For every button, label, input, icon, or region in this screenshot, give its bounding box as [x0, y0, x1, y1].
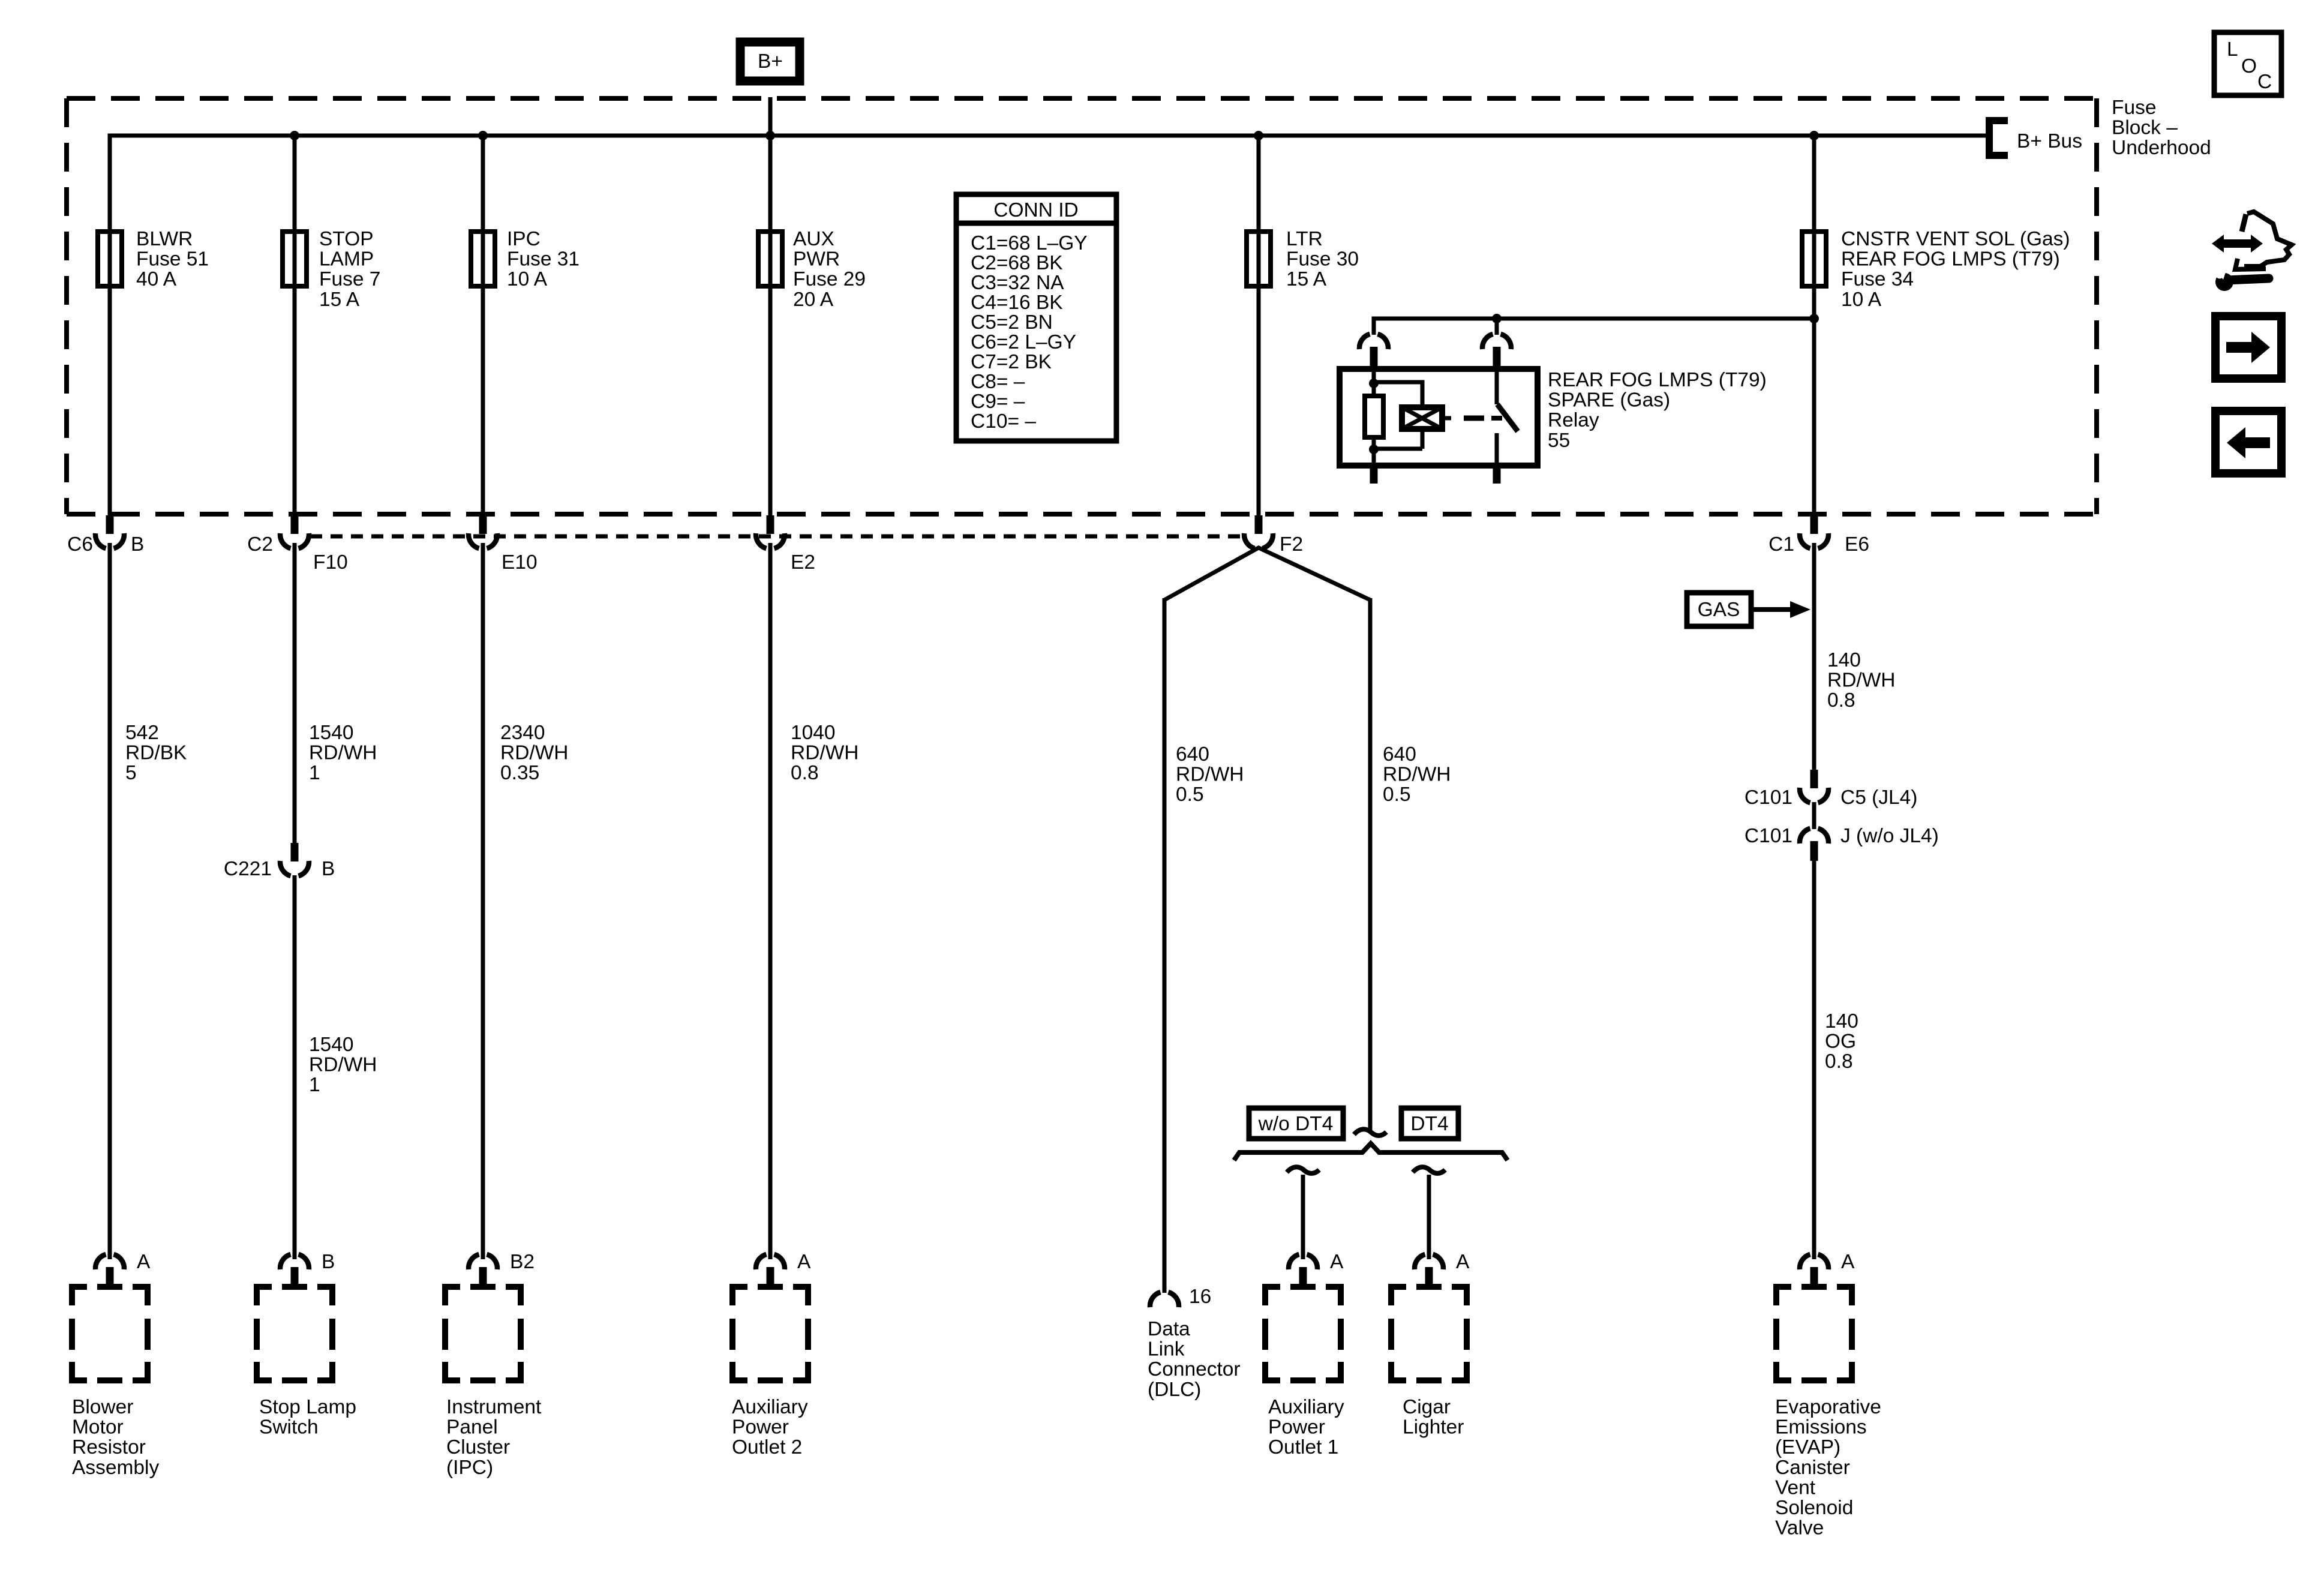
svg-text:C2=68 BK: C2=68 BK: [971, 252, 1063, 274]
svg-text:RD/WH: RD/WH: [309, 1054, 377, 1076]
svg-text:Fuse 29: Fuse 29: [793, 268, 866, 290]
fuse block dashed border: [67, 96, 2097, 101]
relay lower terminal stub (coil): [1370, 466, 1378, 484]
svg-text:BLWR: BLWR: [136, 228, 193, 250]
B+ feed box: [740, 42, 800, 81]
svg-text:C6: C6: [67, 533, 93, 556]
wire bus to F2 via LTR fuse: [1257, 136, 1261, 515]
svg-text:140: 140: [1825, 1010, 1858, 1032]
junction dot bus/B+ feed: [765, 131, 775, 140]
svg-text:STOP: STOP: [319, 228, 374, 250]
component box EVAP Canister Vent Solenoid Valve: [1776, 1287, 1852, 1380]
wire bus to E2 via AUX fuse: [768, 136, 773, 515]
svg-text:Cigar: Cigar: [1403, 1396, 1451, 1418]
svg-text:10 A: 10 A: [1841, 289, 1882, 311]
svg-text:Fuse 30: Fuse 30: [1286, 248, 1359, 271]
svg-text:0.8: 0.8: [791, 762, 819, 784]
svg-text:Outlet 2: Outlet 2: [732, 1436, 802, 1458]
relay lower terminal stub (switch): [1493, 466, 1501, 484]
svg-text:SPARE (Gas): SPARE (Gas): [1548, 389, 1670, 412]
svg-text:Resistor: Resistor: [72, 1436, 146, 1458]
junction dot bus/CNSTR: [1809, 131, 1819, 140]
svg-text:0.8: 0.8: [1827, 689, 1855, 712]
junction dot bus/IPC: [478, 131, 488, 140]
service wrench icon: [2212, 235, 2263, 253]
svg-text:C6=2 L–GY: C6=2 L–GY: [971, 331, 1076, 353]
component box Auxiliary Power Outlet 2: [732, 1287, 808, 1380]
svg-text:Power: Power: [732, 1416, 789, 1439]
svg-text:C101: C101: [1744, 786, 1792, 809]
svg-text:Fuse 34: Fuse 34: [1841, 268, 1914, 290]
svg-text:CONN ID: CONN ID: [993, 199, 1078, 221]
svg-text:B2: B2: [510, 1251, 535, 1273]
svg-text:10 A: 10 A: [507, 268, 548, 290]
svg-text:RD/BK: RD/BK: [125, 742, 187, 764]
connector E2: [767, 515, 774, 534]
wire 1540 RD/WH lower: [293, 875, 297, 1259]
svg-text:OG: OG: [1825, 1031, 1856, 1053]
svg-text:A: A: [1456, 1251, 1470, 1273]
wire relay coil loop: [1374, 380, 1422, 385]
svg-text:Valve: Valve: [1775, 1517, 1824, 1539]
svg-text:Canister: Canister: [1775, 1457, 1850, 1479]
wire bus to C1 via CNSTR fuse: [1812, 136, 1816, 515]
connector F2: [1255, 515, 1263, 534]
relay switch fixed contact: [1491, 416, 1502, 421]
relay switch upper contact: [1495, 369, 1499, 404]
junction dot relay node top: [1369, 379, 1379, 388]
svg-text:w/o DT4: w/o DT4: [1258, 1113, 1334, 1135]
DLC connector pin 16: [1150, 1292, 1179, 1307]
svg-text:B+ Bus: B+ Bus: [2017, 130, 2082, 152]
svg-text:Motor: Motor: [72, 1416, 124, 1439]
svg-text:RD/WH: RD/WH: [1827, 670, 1896, 692]
relay coil (box with X): [1402, 407, 1442, 429]
branch squiggle left: [1287, 1167, 1319, 1173]
junction dot bus/STOP: [290, 131, 299, 140]
relay linkage dash: [1464, 416, 1484, 421]
connector pin A (aux outlet 2): [756, 1254, 785, 1269]
svg-text:DT4: DT4: [1410, 1113, 1448, 1135]
svg-text:1: 1: [309, 1074, 320, 1096]
svg-text:Auxiliary: Auxiliary: [1268, 1396, 1344, 1418]
connector E10: [479, 515, 487, 534]
wire 542 RD/BK: [108, 543, 112, 1259]
relay switch lower contact: [1495, 433, 1499, 466]
wire relay switch drop: [1495, 317, 1499, 335]
svg-text:C10= –: C10= –: [971, 410, 1036, 433]
branch wire to Cigar Lighter: [1427, 1175, 1431, 1259]
B+ Bus bracket: [1989, 121, 2008, 155]
svg-text:Connector: Connector: [1148, 1358, 1241, 1380]
fuse CNSTR VENT SOL Fuse 34 10A: [1802, 232, 1826, 286]
svg-text:55: 55: [1548, 430, 1570, 452]
svg-text:C5=2 BN: C5=2 BN: [971, 311, 1053, 334]
break symbol on 640 wire: [1354, 1129, 1386, 1136]
svg-text:1: 1: [309, 762, 320, 784]
svg-text:Power: Power: [1268, 1416, 1325, 1439]
svg-text:20 A: 20 A: [793, 289, 834, 311]
F2 split diagonals: [1164, 548, 1370, 600]
component box Cigar Lighter: [1391, 1287, 1467, 1380]
svg-text:140: 140: [1827, 649, 1861, 671]
option brace: [1234, 1143, 1508, 1160]
svg-text:1540: 1540: [309, 722, 354, 744]
svg-text:(DLC): (DLC): [1148, 1379, 1201, 1401]
svg-text:REAR FOG LMPS (T79): REAR FOG LMPS (T79): [1548, 369, 1767, 391]
svg-text:IPC: IPC: [507, 228, 541, 250]
component box Auxiliary Power Outlet 1: [1265, 1287, 1341, 1380]
fuse LTR Fuse 30 15A: [1247, 232, 1271, 286]
wire 1040 RD/WH: [768, 543, 773, 1259]
svg-text:PWR: PWR: [793, 248, 840, 271]
svg-text:Relay: Relay: [1548, 409, 1599, 431]
branch squiggle right: [1413, 1167, 1445, 1173]
svg-text:2340: 2340: [500, 722, 545, 744]
svg-text:Auxiliary: Auxiliary: [732, 1396, 808, 1418]
svg-text:AUX: AUX: [793, 228, 834, 250]
svg-text:640: 640: [1383, 743, 1416, 766]
wire 640 RD/WH right: [1368, 598, 1373, 1131]
svg-text:(IPC): (IPC): [446, 1457, 493, 1479]
svg-text:LAMP: LAMP: [319, 248, 374, 271]
wire 2340 RD/WH: [481, 543, 485, 1259]
svg-text:A: A: [1330, 1251, 1344, 1273]
svg-text:A: A: [1841, 1251, 1855, 1273]
option box w/o DT4: [1249, 1108, 1343, 1139]
svg-text:Switch: Switch: [259, 1416, 319, 1439]
relay 55 box: [1340, 369, 1538, 466]
LOC box: [2214, 32, 2281, 95]
branch wire to Aux Outlet 1: [1301, 1175, 1305, 1259]
svg-text:C101: C101: [1744, 825, 1792, 847]
wire bus to C2 via STOP fuse: [293, 136, 297, 515]
svg-text:C1: C1: [1768, 533, 1794, 556]
connector C101 J (w/o JL4): [1812, 802, 1816, 829]
GAS option box and arrow: [1687, 593, 1751, 626]
wire bus to E10 via IPC fuse: [481, 136, 485, 515]
svg-text:(EVAP): (EVAP): [1775, 1436, 1840, 1458]
svg-text:C221: C221: [224, 858, 272, 880]
connector pin A (blower): [95, 1254, 124, 1269]
svg-text:C1=68 L–GY: C1=68 L–GY: [971, 232, 1088, 254]
wire 140 RD/WH: [1812, 543, 1816, 771]
wire 1540 RD/WH upper: [293, 543, 297, 843]
svg-text:C5 (JL4): C5 (JL4): [1840, 786, 1917, 809]
svg-text:C3=32 NA: C3=32 NA: [971, 272, 1064, 294]
wire 640 RD/WH left (DLC): [1163, 598, 1167, 1293]
junction dot bus/LTR: [1254, 131, 1263, 140]
svg-text:B: B: [322, 1251, 335, 1273]
svg-text:Blower: Blower: [72, 1396, 133, 1418]
relay feed wire from fuse 34: [1374, 317, 1814, 321]
svg-text:A: A: [797, 1251, 811, 1273]
svg-text:40 A: 40 A: [136, 268, 177, 290]
svg-text:Fuse 7: Fuse 7: [319, 268, 380, 290]
svg-text:B: B: [322, 858, 335, 880]
wire relay coil tab: [1442, 416, 1451, 421]
svg-text:O: O: [2241, 55, 2257, 77]
wire relay resistor bottom: [1372, 437, 1376, 466]
forward arrow box: [2215, 316, 2281, 379]
relay coil-side connector: [1359, 334, 1388, 349]
svg-text:Evaporative: Evaporative: [1775, 1396, 1881, 1418]
junction dot relay switch feed: [1492, 314, 1502, 323]
svg-text:Stop Lamp: Stop Lamp: [259, 1396, 356, 1418]
svg-text:Fuse 51: Fuse 51: [136, 248, 209, 271]
connector C2 F10: [291, 515, 299, 534]
svg-text:E6: E6: [1845, 533, 1869, 556]
connector C101 C5 (JL4): [1810, 770, 1818, 788]
connector C221 B: [291, 843, 299, 861]
svg-text:RD/WH: RD/WH: [1383, 764, 1451, 786]
svg-text:B+: B+: [758, 50, 783, 73]
svg-text:F10: F10: [313, 551, 348, 574]
connector C6 B: [106, 515, 114, 534]
wire from B+ feed: [768, 97, 773, 136]
svg-text:LTR: LTR: [1286, 228, 1323, 250]
svg-text:Link: Link: [1148, 1338, 1185, 1361]
junction dot relay node bottom: [1369, 445, 1379, 454]
wire 140 OG: [1812, 861, 1816, 1259]
svg-text:REAR FOG LMPS (T79): REAR FOG LMPS (T79): [1841, 248, 2060, 271]
relay switch-side connector: [1482, 334, 1511, 349]
option box DT4: [1401, 1108, 1458, 1139]
svg-text:542: 542: [125, 722, 159, 744]
fuse STOP LAMP Fuse 7 15A: [283, 232, 307, 286]
svg-text:Vent: Vent: [1775, 1476, 1816, 1499]
svg-text:RD/WH: RD/WH: [309, 742, 377, 764]
wire relay resistor top: [1372, 369, 1376, 396]
fuse IPC Fuse 31 10A: [471, 232, 495, 286]
connector C1 E6: [1810, 515, 1818, 534]
fuse BLWR Fuse 51 40A: [98, 232, 122, 286]
svg-text:Lighter: Lighter: [1403, 1416, 1464, 1439]
svg-text:J (w/o JL4): J (w/o JL4): [1840, 825, 1939, 847]
connector row dotted link: [310, 535, 1245, 539]
component box Stop Lamp Switch: [257, 1287, 332, 1380]
CONN ID table: [956, 194, 1116, 441]
svg-text:Block –: Block –: [2112, 117, 2178, 139]
svg-text:5: 5: [125, 762, 137, 784]
svg-text:Instrument: Instrument: [446, 1396, 542, 1418]
svg-text:C2: C2: [247, 533, 273, 556]
svg-text:E2: E2: [791, 551, 815, 574]
svg-text:L: L: [2227, 38, 2238, 61]
svg-text:RD/WH: RD/WH: [791, 742, 859, 764]
connector pin A (cigar lighter): [1415, 1254, 1443, 1269]
svg-text:Panel: Panel: [446, 1416, 498, 1439]
connector pin A (aux outlet 1): [1289, 1254, 1317, 1269]
svg-text:15 A: 15 A: [1286, 268, 1327, 290]
svg-text:0.5: 0.5: [1383, 784, 1411, 806]
svg-text:15 A: 15 A: [319, 289, 360, 311]
wire relay coil drop: [1372, 317, 1376, 335]
svg-text:1540: 1540: [309, 1034, 354, 1056]
svg-text:16: 16: [1189, 1286, 1211, 1308]
svg-text:1040: 1040: [791, 722, 836, 744]
svg-text:Solenoid: Solenoid: [1775, 1497, 1853, 1519]
junction dot CNSTR/relay feed: [1809, 314, 1819, 323]
svg-text:0.8: 0.8: [1825, 1050, 1853, 1073]
svg-text:Data: Data: [1148, 1318, 1190, 1340]
svg-text:Assembly: Assembly: [72, 1457, 159, 1479]
B+ bus wire: [108, 134, 112, 516]
svg-text:CNSTR VENT SOL (Gas): CNSTR VENT SOL (Gas): [1841, 228, 2070, 250]
svg-text:Outlet 1: Outlet 1: [1268, 1436, 1338, 1458]
svg-text:Emissions: Emissions: [1775, 1416, 1867, 1439]
relay resistor: [1365, 396, 1383, 437]
fuse AUX PWR Fuse 29 20A: [758, 232, 782, 286]
svg-text:RD/WH: RD/WH: [1176, 764, 1244, 786]
component box Instrument Panel Cluster: [445, 1287, 521, 1380]
svg-text:RD/WH: RD/WH: [500, 742, 569, 764]
svg-text:C8= –: C8= –: [971, 371, 1025, 393]
back arrow box: [2215, 411, 2281, 473]
svg-text:Underhood: Underhood: [2112, 137, 2211, 159]
svg-text:E10: E10: [502, 551, 538, 574]
svg-text:C9= –: C9= –: [971, 391, 1025, 413]
svg-text:Fuse 31: Fuse 31: [507, 248, 580, 271]
connector pin A (EVAP solenoid): [1800, 1254, 1828, 1269]
connector pin B (stop lamp switch): [280, 1254, 309, 1269]
svg-text:B: B: [131, 533, 144, 556]
svg-text:0.5: 0.5: [1176, 784, 1204, 806]
svg-text:C: C: [2257, 71, 2272, 93]
svg-text:640: 640: [1176, 743, 1209, 766]
svg-text:Cluster: Cluster: [446, 1436, 510, 1458]
connector pin B2 (IPC): [469, 1254, 497, 1269]
svg-text:0.35: 0.35: [500, 762, 539, 784]
svg-text:F2: F2: [1280, 533, 1303, 556]
svg-text:A: A: [137, 1251, 151, 1273]
svg-text:GAS: GAS: [1698, 599, 1740, 621]
svg-text:C4=16 BK: C4=16 BK: [971, 292, 1063, 314]
svg-text:Fuse: Fuse: [2112, 97, 2156, 119]
svg-text:C7=2 BK: C7=2 BK: [971, 351, 1052, 373]
component box Blower Motor Resistor Assembly: [72, 1287, 148, 1380]
relay switch blade: [1497, 404, 1518, 431]
